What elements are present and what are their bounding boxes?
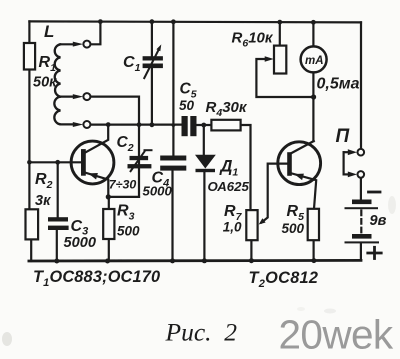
svg-text:тА: тА: [305, 55, 324, 67]
svg-text:5000: 5000: [143, 184, 173, 199]
svg-text:20wek: 20wek: [279, 312, 394, 358]
svg-text:50: 50: [179, 98, 195, 113]
svg-text:T1ОС883;ОС170: T1ОС883;ОС170: [33, 268, 160, 289]
svg-text:500: 500: [117, 224, 140, 239]
svg-text:1,0: 1,0: [223, 220, 242, 235]
svg-text:Рис. 2: Рис. 2: [165, 318, 238, 347]
svg-text:50к: 50к: [33, 75, 57, 91]
svg-text:ОА625: ОА625: [208, 179, 250, 194]
svg-text:7÷30: 7÷30: [109, 178, 137, 192]
svg-text:0,5ма: 0,5ма: [317, 76, 360, 93]
svg-text:3к: 3к: [35, 193, 51, 209]
svg-text:П: П: [336, 126, 350, 147]
svg-text:500: 500: [282, 221, 305, 236]
svg-text:L: L: [44, 22, 54, 41]
svg-text:5000: 5000: [64, 235, 96, 251]
svg-text:9в: 9в: [370, 213, 387, 229]
